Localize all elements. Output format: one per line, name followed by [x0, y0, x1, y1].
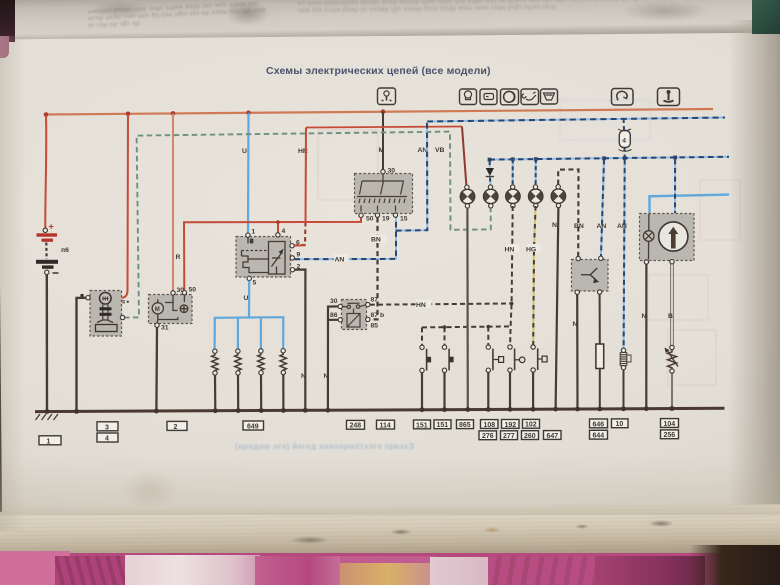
svg-text:VB: VB	[435, 147, 445, 154]
top-right teal fabric	[752, 0, 780, 34]
svg-text:276: 276	[482, 433, 494, 440]
svg-text:248: 248	[350, 423, 362, 430]
bottom page stack	[0, 504, 780, 564]
diode D1	[486, 161, 494, 187]
svg-text:10: 10	[616, 421, 624, 428]
svg-text:N: N	[301, 373, 306, 380]
svg-text:4: 4	[282, 228, 286, 235]
svg-text:87: 87	[371, 297, 379, 304]
wire: HG from lamp H4 to switch S7	[526, 206, 541, 345]
icon: reservoir box	[541, 89, 558, 104]
svg-text:50: 50	[189, 287, 197, 294]
lamp H5	[551, 185, 565, 208]
wire: VB vertical to lamp H1	[462, 127, 467, 188]
wire: pin2 N to ground bus	[295, 270, 306, 410]
svg-text:B: B	[668, 313, 673, 320]
faint bleed-through rectangles	[318, 100, 740, 385]
wire: B double wire from gauge unit	[671, 264, 674, 346]
washer pump relay K2	[572, 256, 609, 294]
bottom right dark cover	[690, 545, 780, 585]
svg-text:N: N	[552, 222, 557, 229]
icon: headlamp box	[501, 89, 519, 105]
svg-text:151: 151	[416, 422, 428, 429]
wire: battery to ground	[46, 275, 49, 412]
strip smudges	[225, 0, 270, 26]
svg-text:AN: AN	[597, 223, 607, 230]
ballast resistor	[596, 294, 604, 409]
switch S6	[508, 345, 525, 409]
lamp H3	[506, 185, 520, 208]
svg-text:R: R	[176, 254, 181, 261]
svg-text:2: 2	[174, 424, 178, 431]
wire: N from relay 30/86 to ground bus	[328, 306, 338, 409]
svg-text:104: 104	[664, 421, 676, 428]
svg-text:865: 865	[459, 422, 471, 429]
icon: gauge box	[480, 89, 497, 105]
svg-text:256: 256	[664, 432, 676, 439]
resistor R3	[258, 349, 264, 410]
svg-text:277: 277	[503, 433, 515, 440]
svg-text:AN: AN	[617, 223, 627, 230]
ignition switch S1	[355, 168, 413, 223]
wire: battery feed	[45, 115, 46, 229]
door switch S4	[442, 345, 453, 409]
svg-text:30: 30	[388, 168, 396, 175]
switch S7	[531, 345, 547, 409]
left edge shading	[0, 36, 26, 531]
battery n6	[36, 222, 69, 275]
wire: red 50 line to starter	[184, 218, 361, 290]
wire: AN drop into gauge unit	[674, 159, 676, 213]
svg-text:649: 649	[247, 424, 259, 431]
svg-text:1: 1	[47, 438, 51, 445]
light switch S2	[236, 228, 301, 287]
svg-text:1: 1	[252, 229, 256, 236]
svg-text:646: 646	[593, 421, 605, 428]
wire: pin6 to HR	[294, 244, 305, 246]
wire: red drop to starter 30	[172, 113, 174, 290]
icon: gear lever box	[658, 88, 680, 106]
icon: handbrake lamp box	[378, 88, 396, 105]
svg-text:644: 644	[593, 433, 605, 440]
alternator / horn unit	[81, 291, 130, 337]
wire: N from lamp H1	[466, 208, 469, 409]
wire: N from gauge unit	[645, 264, 647, 409]
icon: wiper rotation box	[612, 89, 634, 106]
svg-text:U: U	[244, 295, 249, 302]
wire: green charge-indicator net (D+)	[124, 132, 491, 318]
svg-text:31: 31	[161, 325, 169, 332]
connector number boxes row 1	[39, 419, 679, 446]
wire: BN loop lamp H5 to washer relay	[558, 169, 584, 256]
svg-text:114: 114	[380, 423, 391, 430]
svg-text:N: N	[573, 321, 578, 328]
wire: alternator to ground bus (left long)	[77, 298, 86, 411]
stack smudges	[290, 536, 330, 544]
svg-text:N: N	[642, 313, 647, 320]
svg-text:108: 108	[484, 422, 496, 429]
resistor R4	[280, 349, 286, 410]
svg-text:260: 260	[524, 433, 536, 440]
wire: AN drop to heater coil	[617, 160, 627, 349]
svg-text:8: 8	[250, 239, 253, 245]
wire: BN from ignition 19 to relay 87b	[370, 218, 387, 320]
wire: dark blue dashed AN bus (top)	[427, 118, 725, 122]
svg-text:30: 30	[330, 298, 338, 305]
wire: M drop + HR/VB branch	[382, 112, 384, 170]
wire: N from lamp H5	[556, 208, 559, 409]
wire: red stub to light switch pin4	[277, 222, 279, 233]
svg-text:BN: BN	[371, 237, 381, 244]
svg-text:5: 5	[253, 280, 257, 287]
lamp bus drops to H3 H4	[513, 159, 536, 187]
svg-text:192: 192	[505, 422, 517, 429]
svg-text:AN: AN	[335, 257, 345, 264]
svg-text:HN: HN	[416, 302, 426, 309]
resistor R2	[235, 349, 241, 410]
svg-text:4: 4	[622, 137, 626, 144]
right page curve darker	[728, 20, 780, 540]
wire: light blue dashed lamp bus	[488, 156, 729, 162]
svg-text:4: 4	[105, 436, 109, 443]
wire: U from pin5 to resistor bus	[248, 281, 250, 318]
lamp H2	[484, 185, 498, 208]
svg-text:M: M	[155, 307, 160, 313]
svg-text:30: 30	[177, 287, 185, 294]
wire: top supply bus (red/orange)	[44, 109, 713, 117]
wire: AN drop to washer relay	[597, 160, 607, 257]
svg-text:N: N	[324, 373, 329, 380]
wire: AN riser from ignition 15	[295, 122, 428, 264]
wire: U feed from bus to light switch	[247, 113, 250, 234]
rheostat (variable resistor)	[665, 345, 679, 408]
svg-text:AN: AN	[418, 147, 428, 154]
svg-text:п6: п6	[61, 247, 69, 254]
svg-text:151: 151	[437, 422, 449, 429]
svg-text:BN: BN	[574, 223, 584, 230]
ground bus (bottom)	[35, 406, 725, 414]
door switch S3	[420, 345, 431, 409]
fuel gauge inside	[659, 222, 688, 251]
wire: HR vertical	[305, 128, 308, 223]
top-left dark cover	[0, 0, 15, 42]
gauge unit box	[640, 214, 695, 265]
heater coil	[620, 348, 631, 409]
svg-text:U: U	[242, 148, 247, 155]
svg-text:87 b: 87 b	[371, 312, 385, 319]
indicator lamp inside	[643, 214, 654, 260]
svg-text:50: 50	[366, 216, 374, 223]
wire: HN net (relay 87 - lamp H3 - switch feeds)	[370, 206, 520, 345]
lamp H1	[460, 185, 474, 208]
icon: bulb box	[460, 89, 477, 105]
wire: solid blue feed to gauge unit	[650, 195, 730, 214]
starter motor M1	[149, 287, 197, 332]
lamp H4	[529, 185, 543, 208]
svg-text:102: 102	[525, 422, 537, 429]
svg-text:(иредом эга) йегед хихоэриdтхэ: (иредом эга) йегед хихоэриdтхэге iqмэхЭ	[235, 442, 415, 451]
resistor feed bus (blue)	[215, 317, 284, 349]
svg-text:86: 86	[330, 312, 338, 319]
ground	[36, 414, 59, 420]
svg-text:HG: HG	[526, 247, 536, 254]
svg-text:15: 15	[400, 216, 408, 223]
svg-text:+: +	[49, 222, 54, 232]
svg-text:85: 85	[371, 323, 379, 330]
top curled pages strip	[6, 0, 767, 50]
svg-text:Схемы электрических цепей (все: Схемы электрических цепей (все модели)	[266, 65, 491, 77]
svg-text:M: M	[379, 147, 385, 154]
svg-text:647: 647	[547, 433, 559, 440]
wire: red drop to alternator B+	[122, 114, 128, 298]
wire: N from washer relay	[576, 294, 578, 408]
wire: starter 31 to ground bus	[155, 327, 158, 410]
blanket bottom	[0, 553, 780, 585]
icon: washer jet box	[521, 89, 539, 105]
svg-text:9: 9	[297, 252, 301, 259]
resistor R1	[212, 349, 218, 410]
svg-text:HN: HN	[505, 247, 515, 254]
page bottom shading	[0, 455, 780, 515]
svg-text:3: 3	[105, 424, 109, 431]
intermittent wiper relay K1	[330, 297, 384, 330]
fuse 4	[618, 119, 632, 158]
svg-text:19: 19	[382, 216, 390, 223]
switch S5	[486, 345, 504, 409]
shadow between pages	[0, 22, 780, 62]
